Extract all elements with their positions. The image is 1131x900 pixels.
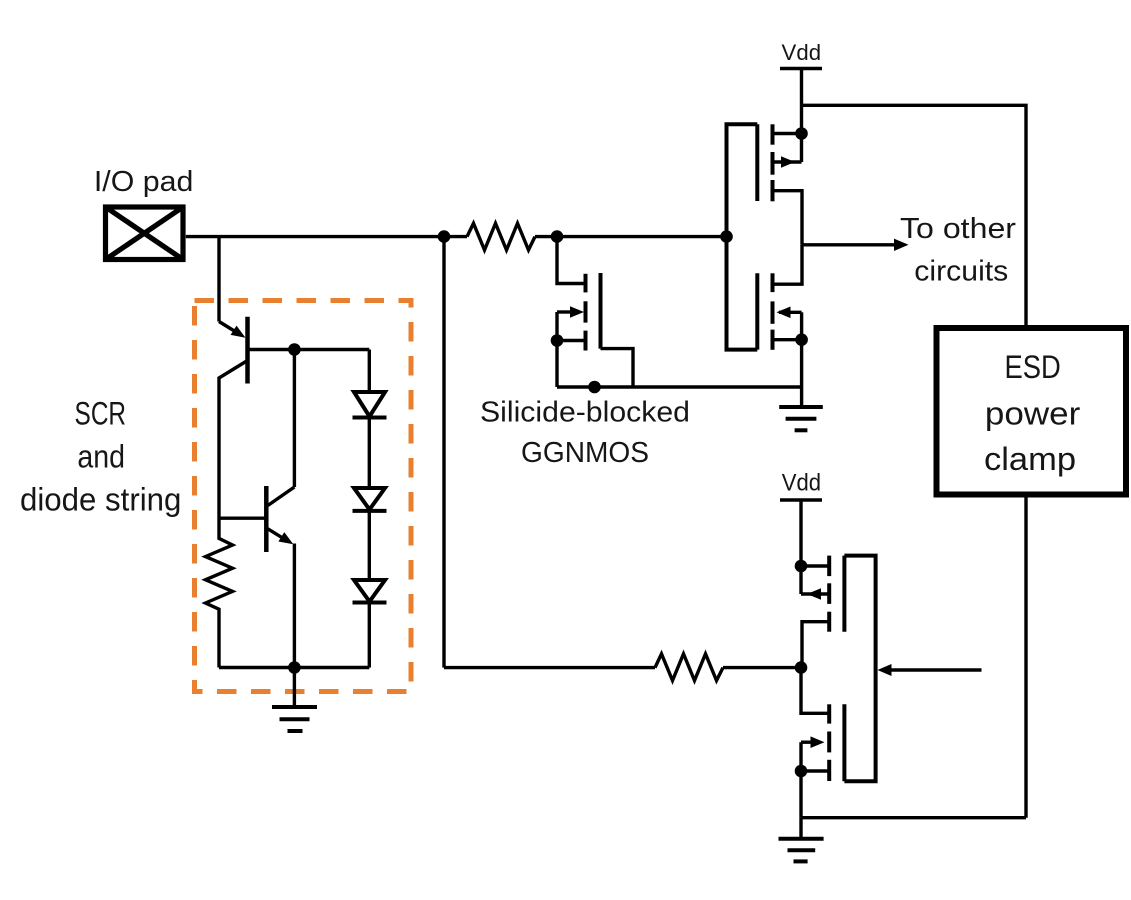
resistor R1 [467,223,535,250]
transistor Q1 (PNP) bar [245,317,250,384]
svg-text:SCR: SCR [75,396,127,432]
transistor Q2 (NPN) bar [264,486,269,552]
transistor N1 (NMOS) channel segments [771,273,775,350]
wire Vdd to P2 source [799,500,802,594]
node junction dot on ground rail [590,382,599,391]
wire bottom branch to resistor R3 [444,666,655,669]
svg-text:clamp: clamp [984,441,1076,477]
transistor N2 bulk arrow [801,741,815,744]
diode D3 [353,580,387,603]
ESD power clamp label [984,349,1081,477]
svg-text:and: and [77,439,125,475]
transistor P1 drain wire [773,191,803,245]
transistor P1 source wire [773,132,802,135]
transistor M1 bulk-source tie [555,312,558,341]
node junction dot at SCR ground [290,663,299,672]
SCR and diode string label [20,396,181,518]
transistor N2 source wire [801,769,829,772]
resistor R2 (substrate) [206,519,233,668]
transistor N1 bulk-source tie [800,312,803,339]
wire R1 to inverter gate [535,235,727,238]
node junction dot at N2 source [796,766,805,775]
wire Q2 collector up to Q1 base [293,350,296,488]
transistor N2 bulk-source tie [799,742,802,771]
transistor M1 bulk arrow [557,310,571,313]
node junction dot at R1 right / GGNMOS drain [552,232,561,241]
svg-text:circuits: circuits [914,256,1008,288]
Vdd supply bar [780,67,822,70]
wire pad to resistor R1 [186,235,467,238]
wire pad branch down to SCR [217,237,220,322]
wire Q2 emitter down [293,544,296,668]
node junction dot at pad branch [439,232,448,241]
Silicide-blocked GGNMOS label [480,397,690,470]
wire Vdd to P1 source [800,69,803,163]
node junction dot on Q1 base [290,345,299,354]
node junction dot at driver output [796,663,805,672]
resistor R3 [655,654,723,681]
To other circuits label [900,213,1016,288]
SCR dashed enclosure box [195,301,412,692]
diode D2 [353,488,387,511]
transistor Q2 (NPN) base wire [219,517,265,520]
transistor P1 (PMOS) channel segments [771,124,775,201]
svg-text:Vdd: Vdd [782,470,821,497]
driver gate structure [844,556,875,782]
node junction dot at inverter input [722,232,731,241]
transistor P2 drain wire [802,622,829,668]
wire M1 source to ground rail [555,341,558,388]
transistor Q2 (NPN) collector [268,487,295,506]
svg-text:Vdd: Vdd [782,40,822,65]
transistor P2 bulk arrow [801,592,829,595]
inverter gate structure [727,124,758,349]
transistor P2 channel segments [827,556,831,632]
ground (inverter) [779,407,823,430]
transistor N1 source wire [773,338,802,341]
transistor M1 (GGNMOS) drain wire [557,237,585,284]
wire N2 source to ground rail [799,771,802,818]
wire R3 to driver output [723,666,801,669]
ground rail (driver to clamp) [801,816,1026,819]
transistor M1 gate to ground wire [601,349,634,387]
transistor M1 source wire [557,339,585,342]
transistor P1 bulk arrow [775,160,802,163]
transistor N2 channel segments [827,704,831,781]
svg-text:diode string: diode string [20,482,181,518]
transistor N2 (NMOS) drain wire [801,668,829,714]
output arrow to other circuits [802,243,896,246]
ground (SCR) [272,668,317,732]
wire N1 source to ground [800,340,803,407]
svg-text:I/O pad: I/O pad [94,166,194,198]
svg-text:ESD: ESD [1004,349,1060,385]
transistor M1 channel segments [584,274,588,351]
transistor Q1 (PNP) emitter [219,322,240,335]
transistor Q1 (PNP) base wire [249,348,369,351]
svg-text:power: power [985,395,1081,431]
wire Vdd branch to ESD clamp [802,105,1027,326]
node junction dot at P2 source [796,561,805,570]
ground (driver) [779,818,824,862]
wire D2 to D3 [368,511,371,579]
wire D1 to D2 [368,418,371,488]
wire ESD clamp to ground rail [1024,496,1027,818]
wire diode string top [368,350,371,392]
Vdd supply bar (driver) [780,498,822,501]
node junction dot at P1 source [797,129,806,138]
diode D1 [353,392,387,418]
transistor N1 bulk arrow [779,311,802,314]
transistor P2 (PMOS) source wire [801,564,829,567]
transistor Q2 (NPN) emitter [268,529,284,539]
wire D3 to bottom [368,603,371,668]
SCR bottom wire [219,666,369,669]
node junction dot at N1 source [797,335,806,344]
svg-text:Silicide-blocked: Silicide-blocked [480,397,690,429]
I/O pad [106,207,184,260]
ESD power clamp box [937,328,1127,495]
svg-text:To other: To other [900,213,1016,245]
transistor M1 gate plate [599,273,603,349]
transistor Q1 (PNP) collector [219,361,248,519]
wire pad branch down (long vertical) [442,237,445,668]
driver input arrow [890,668,982,671]
transistor N1 drain wire [773,245,803,284]
svg-text:GGNMOS: GGNMOS [521,437,649,469]
ground rail (GGNMOS to inverter) [557,385,802,388]
node junction dot at M1 source [552,336,561,345]
